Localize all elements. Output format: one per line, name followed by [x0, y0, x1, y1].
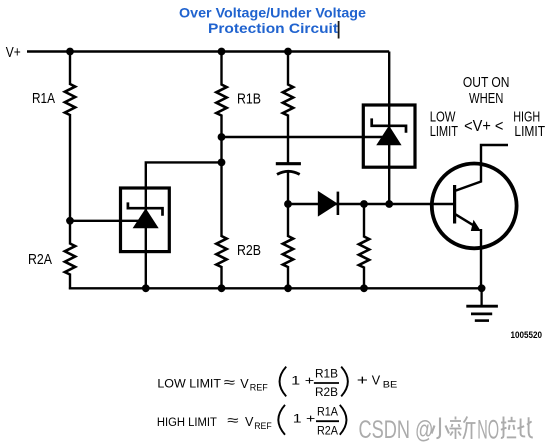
wire column B top (V+ to R1B)	[220, 52, 222, 86]
zener diode D3 triangle	[378, 127, 401, 145]
svg-text:LIMIT: LIMIT	[430, 123, 458, 140]
svg-text:1 +: 1 +	[293, 412, 316, 426]
svg-text:CSDN @: CSDN @	[359, 416, 434, 444]
svg-text:<V+ <: <V+ <	[464, 118, 503, 135]
junction dot top rail at R1B column	[218, 48, 226, 56]
ground	[466, 288, 498, 320]
diode D2 cathode bar	[337, 192, 340, 215]
formula HIGH LIMIT	[157, 405, 347, 438]
capacitor C1 top plate	[276, 162, 301, 165]
capacitor C1 bottom curved plate	[277, 171, 300, 174]
junction dot (221.5,137.5)	[218, 133, 226, 141]
resistor R2A	[65, 244, 75, 275]
label OUT ON WHEN	[430, 74, 545, 140]
wire cap column (capacitor to lower resistor)	[287, 172, 289, 238]
diode D2 triangle	[319, 192, 337, 215]
svg-text:≈: ≈	[224, 374, 236, 390]
junction dot middle wire at right zener column	[385, 200, 393, 208]
svg-text:HIGH LIMIT: HIGH LIMIT	[157, 415, 217, 429]
wire node A to left zener box (y=220.8)	[70, 220, 146, 222]
junction dot (146.3,288.3)	[142, 284, 150, 292]
wire column A bottom (R2A to ground rail)	[69, 274, 71, 290]
svg-text:BE: BE	[383, 380, 398, 390]
svg-text:REF: REF	[250, 383, 269, 393]
junction dot bottom rail at R2B column	[218, 284, 226, 292]
svg-text:V+: V+	[6, 45, 21, 61]
svg-text:≈: ≈	[227, 412, 239, 428]
box around right zener U2	[363, 105, 415, 167]
resistor (x=364 column)	[359, 237, 369, 268]
watermark glyph la	[501, 417, 516, 438]
svg-text:R2B: R2B	[315, 385, 338, 399]
svg-text:R2B: R2B	[237, 243, 261, 259]
junction dot bottom rail at emitter/ground	[478, 284, 486, 292]
junction dot top rail at capacitor column	[284, 48, 292, 56]
watermark glyph xiao	[432, 418, 450, 439]
transistor Q1 circle	[432, 164, 517, 249]
svg-text:NO: NO	[477, 414, 499, 444]
svg-text:R2A: R2A	[317, 423, 339, 437]
svg-text:R1B: R1B	[315, 366, 338, 380]
wire emitter to rail	[480, 229, 482, 289]
svg-text:+: +	[357, 372, 368, 388]
junction dot (221.5,162.4)	[218, 159, 226, 167]
svg-text:LIMIT: LIMIT	[514, 123, 545, 140]
resistor (cap column, upper)	[283, 85, 293, 116]
junction dot top rail at R1A column	[66, 48, 74, 56]
transistor Q1 collector	[455, 145, 508, 191]
svg-text:R1A: R1A	[32, 91, 55, 107]
wire cap column bottom to rail	[287, 266, 289, 289]
resistor (cap column, lower)	[283, 236, 293, 267]
wire cap column (resistor to capacitor)	[287, 115, 289, 164]
wire middle horizontal (cap to transistor base, y=204)	[288, 203, 455, 205]
formula LOW LIMIT	[157, 366, 397, 399]
wire column A middle (R1A to R2A)	[69, 114, 71, 245]
svg-text:V: V	[240, 377, 249, 391]
svg-text:WHEN: WHEN	[469, 90, 503, 107]
svg-text:LOW LIMIT: LOW LIMIT	[157, 377, 221, 391]
resistor R2B	[216, 236, 226, 267]
svg-text:V: V	[245, 415, 254, 429]
transistor Q1 emitter arrowhead	[471, 220, 481, 231]
svg-text:1 +: 1 +	[291, 373, 314, 387]
wire x=364 bottom to rail	[363, 267, 365, 290]
zener diode D1 cathode bar	[128, 202, 163, 215]
junction dot bottom rail at capacitor column	[284, 284, 292, 292]
wire column B middle (R1B to R2B)	[220, 115, 222, 238]
wire left zener column (through box to rail)	[145, 188, 147, 289]
zener diode D3 cathode bar	[372, 118, 406, 132]
svg-text:1005520: 1005520	[511, 330, 543, 340]
wire right zener column (V+ rail corner down through box)	[388, 52, 390, 205]
watermark glyph bi	[517, 417, 532, 437]
svg-text:Over Voltage/Under Voltage: Over Voltage/Under Voltage	[179, 6, 366, 21]
transistor Q1 emitter	[455, 214, 477, 227]
transistor Q1 base bar	[453, 185, 456, 224]
svg-text:R2A: R2A	[28, 252, 52, 268]
wire resistor column x=364 (to rail)	[363, 204, 365, 238]
resistor R1B	[216, 85, 226, 116]
junction dot middle wire at x=364 column	[360, 200, 368, 208]
wire top rail V+	[27, 50, 389, 52]
svg-text:OUT ON: OUT ON	[463, 74, 510, 91]
resistor R1A	[65, 84, 75, 115]
wire R1B junction to right zener box (y=137.5)	[222, 136, 390, 138]
box around left zener U1	[121, 188, 170, 252]
text cursor after title	[338, 21, 340, 39]
junction dot (70,220.8)	[66, 217, 74, 225]
svg-text:R1A: R1A	[317, 405, 339, 419]
svg-text:REF: REF	[254, 421, 272, 431]
svg-text:Protection Circuit: Protection Circuit	[208, 21, 339, 36]
wire capacitor column top (V+ to small resistor)	[287, 52, 289, 86]
wire R1B junction to left zener box top (y=162.4)	[146, 162, 222, 189]
zener diode D1 triangle	[134, 210, 157, 228]
wire bottom rail	[69, 287, 482, 289]
watermark glyph xin	[450, 417, 476, 440]
svg-text:R1B: R1B	[237, 91, 261, 107]
wire column A top (V+ to R1A)	[69, 52, 71, 86]
title: Over Voltage/Under Voltage Protection Circuit	[179, 6, 366, 37]
wire column B bottom (R2B to rail)	[220, 266, 222, 289]
junction dot bottom rail at x=364 column	[360, 284, 368, 292]
watermark CSDN @	[359, 414, 500, 444]
junction dot middle wire at capacitor column	[284, 200, 292, 208]
svg-text:V: V	[372, 373, 381, 387]
